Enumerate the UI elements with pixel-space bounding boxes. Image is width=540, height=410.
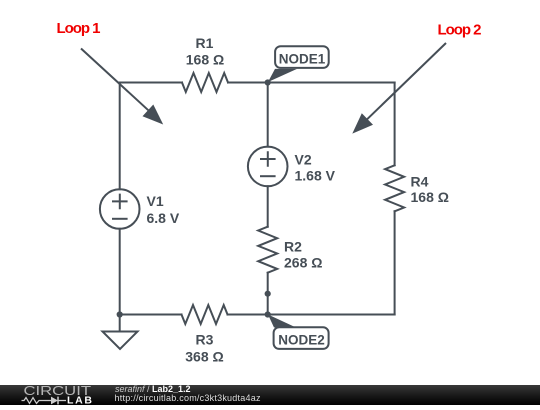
V1 plus sign bbox=[113, 195, 127, 209]
logo diode bar bbox=[57, 397, 59, 405]
svg-text:http://circuitlab.com/c3kt3kud: http://circuitlab.com/c3kt3kudta4az bbox=[115, 393, 262, 403]
annotation Loop 2 arrowhead bbox=[352, 113, 373, 133]
V2 minus sign bbox=[261, 175, 275, 177]
resistor R1 bbox=[182, 73, 228, 92]
node flag NODE2 pointer bbox=[268, 315, 296, 328]
svg-text:368 Ω: 368 Ω bbox=[185, 349, 223, 365]
svg-text:NODE2: NODE2 bbox=[278, 333, 325, 348]
node dot at R2 bottom terminal bbox=[265, 291, 271, 297]
wire: left rail lower bbox=[119, 229, 121, 315]
node flag NODE2 box bbox=[274, 327, 329, 349]
voltage source V1 bbox=[100, 189, 140, 229]
node dot at NODE1 junction bbox=[265, 79, 271, 85]
node flag NODE1 box bbox=[275, 46, 329, 68]
svg-text:R4: R4 bbox=[411, 174, 429, 190]
svg-text:268 Ω: 268 Ω bbox=[284, 255, 322, 271]
svg-text:Loop 1: Loop 1 bbox=[57, 20, 101, 37]
svg-text:R3: R3 bbox=[196, 332, 214, 348]
wire: right rail lower bbox=[394, 211, 396, 314]
logo wire to diode bbox=[45, 400, 52, 402]
wire: left rail upper bbox=[119, 83, 121, 190]
resistor R4 bbox=[385, 165, 404, 211]
svg-text:V2: V2 bbox=[295, 152, 312, 168]
svg-text:168 Ω: 168 Ω bbox=[411, 189, 449, 205]
svg-text:1.68 V: 1.68 V bbox=[295, 168, 336, 184]
voltage source V2 bbox=[248, 147, 288, 187]
svg-text:V1: V1 bbox=[147, 193, 164, 209]
logo resistor symbol bbox=[22, 398, 45, 404]
node dot at ground junction bbox=[117, 311, 123, 317]
logo wire after diode bbox=[58, 400, 66, 402]
V1 minus sign bbox=[113, 218, 127, 220]
logo diode triangle bbox=[51, 397, 58, 405]
node dot at NODE2 junction bbox=[265, 311, 271, 317]
svg-text:168 Ω: 168 Ω bbox=[186, 52, 224, 68]
wire: right rail upper bbox=[394, 83, 396, 166]
annotation Loop 2 arrow line bbox=[366, 43, 446, 120]
wire: middle rail lower bbox=[267, 273, 269, 315]
wire: middle rail upper bbox=[267, 83, 269, 147]
annotation Loop 1 arrowhead bbox=[143, 105, 164, 125]
svg-text:LAB: LAB bbox=[67, 394, 92, 405]
ground bbox=[103, 332, 138, 350]
node flag NODE1 pointer bbox=[268, 69, 297, 82]
svg-text:6.8 V: 6.8 V bbox=[147, 210, 180, 226]
wire: middle rail between V2 and R2 bbox=[267, 186, 269, 227]
svg-text:NODE1: NODE1 bbox=[279, 52, 326, 67]
wire: top rail right segment bbox=[228, 82, 395, 84]
svg-text:R2: R2 bbox=[284, 239, 302, 255]
resistor R2 bbox=[258, 227, 277, 273]
wire: ground stub bbox=[119, 315, 121, 332]
footer bar bbox=[0, 385, 540, 405]
wire: bottom rail left segment bbox=[120, 314, 182, 316]
V2 plus sign bbox=[261, 152, 275, 166]
annotation Loop 1 arrow line bbox=[81, 49, 150, 112]
svg-text:Loop 2: Loop 2 bbox=[438, 22, 482, 39]
wire: top rail left segment bbox=[120, 82, 182, 84]
svg-text:R1: R1 bbox=[196, 35, 214, 51]
resistor R3 bbox=[182, 305, 228, 324]
wire: bottom rail right segment bbox=[228, 314, 395, 316]
